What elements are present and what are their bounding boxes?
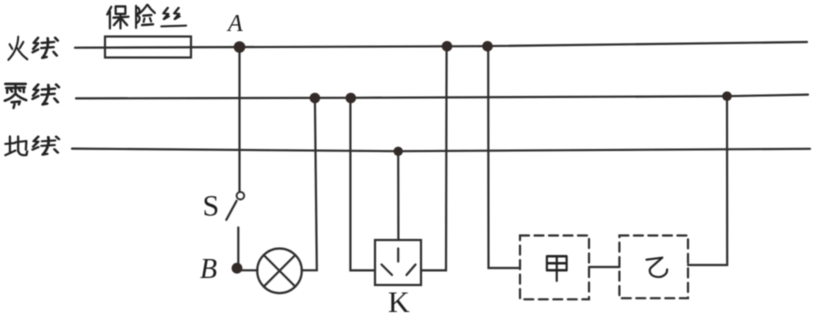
wire: socket top to ground xyxy=(397,151,399,240)
appliance box 甲 (dashed) xyxy=(520,236,589,300)
appliance box 乙 (dashed) xyxy=(619,236,688,299)
junction dot: ground/socket xyxy=(394,147,403,156)
wire: node A to switch S xyxy=(238,47,240,192)
label 丝 (of 保险丝) xyxy=(161,8,186,27)
label 乙 (appliance) xyxy=(646,258,667,277)
label 地 (of 地线) xyxy=(5,136,27,155)
junction dot: neutral/lamp xyxy=(310,93,321,104)
wire: socket right up to live xyxy=(421,46,447,270)
wire: ground line (地线) xyxy=(72,149,810,152)
wire: box 乙 right up to neutral xyxy=(688,96,727,265)
wire: lamp right to neutral xyxy=(302,98,317,270)
node B junction dot xyxy=(232,263,243,274)
fuse (保险丝 box) xyxy=(105,37,191,58)
svg-text:B: B xyxy=(200,254,217,285)
wire: neutral down to socket left xyxy=(350,98,375,270)
label 线 (of 零线) xyxy=(33,84,59,104)
junction dot: neutral/乙 xyxy=(722,91,732,101)
label 保 (of 保险丝) xyxy=(107,6,128,28)
label 线 (of 火线) xyxy=(33,38,58,58)
wire: live line (火线) xyxy=(75,42,807,48)
label 险 (of 保险丝) xyxy=(136,5,155,28)
wire: between 甲 and 乙 xyxy=(589,266,620,268)
label 零 (of 零线) xyxy=(5,84,26,108)
wire: live down to box 甲 xyxy=(488,46,520,268)
switch S lever xyxy=(226,201,236,220)
label 火 (of 火线) xyxy=(8,37,27,60)
lamp (circle with X) xyxy=(257,248,302,293)
node A junction dot xyxy=(234,41,246,53)
wire: switch to node B xyxy=(237,228,239,268)
svg-text:A: A xyxy=(226,11,243,37)
label 线 (of 地线) xyxy=(33,137,59,155)
svg-text:K: K xyxy=(388,286,410,313)
junction dot: neutral/socket xyxy=(346,93,357,104)
switch S pivot circle xyxy=(237,192,245,200)
junction dot: live/甲 xyxy=(482,41,493,52)
wire: node B to lamp xyxy=(238,269,258,271)
junction dot: live/socket xyxy=(442,41,453,52)
svg-text:S: S xyxy=(203,190,220,223)
socket K box xyxy=(375,240,421,285)
label 甲 (appliance) xyxy=(547,256,567,281)
wire: neutral line (零线) xyxy=(76,95,808,99)
